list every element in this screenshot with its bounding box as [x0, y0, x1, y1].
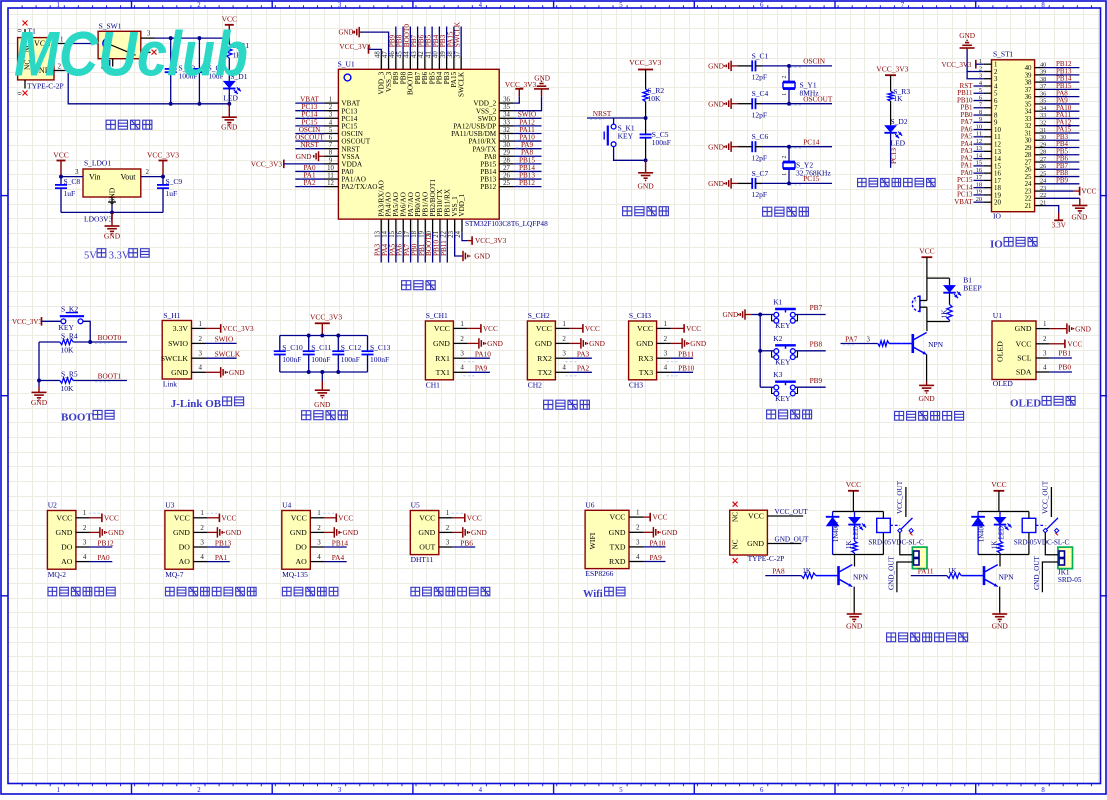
- ST1 left pin 3: [984, 78, 992, 80]
- CH2 pin 2 GND: [555, 342, 569, 344]
- svg-text:29: 29: [1025, 145, 1032, 152]
- svg-text:LED: LED: [223, 94, 238, 103]
- svg-text:7: 7: [329, 142, 333, 149]
- svg-text:23: 23: [1025, 188, 1032, 195]
- ST1 right pin 21: [1035, 205, 1044, 207]
- svg-text:AO: AO: [61, 557, 73, 566]
- svg-text:43: 43: [411, 51, 418, 58]
- net label VCC_OUT: [767, 515, 803, 517]
- ground GND filter: [321, 372, 323, 381]
- svg-text:CH3: CH3: [629, 380, 643, 389]
- svg-text:18: 18: [411, 230, 418, 237]
- svg-text:35: 35: [503, 104, 510, 111]
- ST1 left pin 8: [984, 114, 992, 116]
- ST1 right pin 35: [1035, 103, 1044, 105]
- svg-text:SWIO: SWIO: [168, 339, 188, 348]
- LDO pin 2 wire: [141, 176, 163, 178]
- net VCC_OUT vertical: [905, 487, 907, 517]
- key S_K1 reset button: [613, 118, 615, 124]
- svg-text:SCL: SCL: [1017, 354, 1032, 363]
- svg-text:S_K2: S_K2: [61, 304, 78, 313]
- label program run indicator: [858, 178, 867, 186]
- svg-text:2: 2: [197, 2, 201, 9]
- svg-text:GND: GND: [296, 152, 312, 161]
- wire C2 branch: [170, 38, 172, 69]
- U1 left pin 11 PA1/AO: [325, 178, 339, 180]
- svg-text:14: 14: [994, 156, 1001, 163]
- U1 bottom pin 24 VDD_1: [461, 219, 463, 233]
- svg-text:2: 2: [636, 524, 640, 532]
- U1 left pin 7 NRST: [325, 148, 339, 150]
- diode 1N4007: [832, 512, 834, 517]
- svg-text:PB11: PB11: [678, 350, 694, 359]
- ground GND bottom of U1 VSS_1: [455, 233, 463, 256]
- svg-text:VCC: VCC: [467, 513, 482, 522]
- label relay control circuit: [887, 633, 896, 642]
- svg-text:SRD-05: SRD-05: [1058, 576, 1082, 584]
- net label BOOT0: [73, 341, 127, 343]
- svg-text:MCUclub: MCUclub: [14, 20, 248, 90]
- svg-text:12pF: 12pF: [752, 73, 767, 82]
- svg-text:1: 1: [1043, 320, 1047, 328]
- svg-text:VCC: VCC: [653, 513, 668, 522]
- svg-text:6: 6: [329, 134, 333, 141]
- relay coil SRD-05VDC-SL-C: [877, 518, 891, 532]
- svg-text:1: 1: [446, 509, 450, 517]
- svg-text:14: 14: [382, 230, 389, 237]
- relay driver emitter to ground: [853, 587, 855, 613]
- net label PA8 and base resistor 1K: [765, 575, 801, 577]
- svg-text:1K: 1K: [941, 309, 949, 319]
- svg-text:PB0: PB0: [1059, 362, 1072, 371]
- svg-text:33: 33: [503, 119, 510, 126]
- svg-text:1K: 1K: [846, 541, 853, 549]
- svg-text:12pF: 12pF: [752, 153, 767, 162]
- svg-text:PA8: PA8: [772, 567, 785, 576]
- svg-text:S_C13: S_C13: [370, 343, 391, 352]
- svg-text:GND: GND: [173, 528, 190, 537]
- svg-text:100nF: 100nF: [282, 355, 301, 364]
- capacitor S_C3 10uF: [193, 68, 205, 70]
- svg-text:S_CH1: S_CH1: [426, 311, 448, 320]
- svg-text:VCC: VCC: [53, 150, 68, 159]
- svg-text:GND: GND: [487, 339, 503, 348]
- svg-text:8: 8: [1041, 787, 1045, 794]
- svg-text:37: 37: [1025, 87, 1032, 94]
- svg-text:20: 20: [994, 200, 1001, 207]
- transistor Q1 NPN alarm: [911, 334, 914, 353]
- ground GND LDO: [111, 212, 113, 226]
- svg-text:SDA: SDA: [1016, 368, 1032, 377]
- U1 bottom pin 23 VSS_1: [454, 219, 456, 233]
- capacitor S_C6 12pF: [738, 146, 752, 148]
- net label PA7 and base resistor 1K: [841, 343, 878, 345]
- svg-text:PB11: PB11: [440, 240, 448, 256]
- svg-text:12pF: 12pF: [752, 190, 767, 199]
- U6 pin 4 net PA9: [629, 561, 643, 563]
- svg-text:NRST: NRST: [593, 109, 612, 118]
- header S_CH3 serial: [629, 321, 657, 380]
- net label PB7: [795, 314, 826, 316]
- ST1 left pin 9: [984, 121, 992, 123]
- U1 top pin 39 PB3: [446, 57, 448, 70]
- svg-text:GND: GND: [609, 528, 626, 537]
- net label BOOT1: [73, 380, 127, 382]
- svg-text:1: 1: [329, 97, 332, 104]
- svg-text:37: 37: [454, 51, 461, 58]
- svg-text:GND: GND: [747, 539, 764, 548]
- net label NRST: [587, 117, 646, 119]
- svg-text:STM32F103C8T6_LQFP48: STM32F103C8T6_LQFP48: [465, 219, 548, 228]
- svg-text:36: 36: [1025, 94, 1032, 101]
- svg-text:Vin: Vin: [89, 173, 101, 182]
- svg-text:27: 27: [1025, 159, 1032, 166]
- wire S_C1 to net: [756, 65, 763, 67]
- svg-text:VCC: VCC: [174, 513, 190, 522]
- svg-text:MQ-2: MQ-2: [48, 570, 67, 579]
- svg-text:8: 8: [1041, 2, 1045, 9]
- H1 pin 4 GND: [192, 371, 206, 373]
- svg-text:3: 3: [200, 538, 204, 546]
- svg-text:SWCLK: SWCLK: [161, 354, 189, 363]
- ST1 right pin 31: [1035, 132, 1044, 134]
- U1 top pin 48 VDD_3: [380, 57, 382, 70]
- svg-text:GND: GND: [418, 528, 435, 537]
- resistor alarm 1K: [947, 305, 952, 321]
- crystal S_Y2 32.768KHz: [787, 145, 791, 149]
- svg-text:GND: GND: [846, 621, 863, 630]
- svg-text:NPN: NPN: [853, 572, 869, 581]
- svg-text:32.768KHz: 32.768KHz: [796, 168, 831, 177]
- svg-text:PA0: PA0: [97, 553, 110, 562]
- svg-text:GND: GND: [1015, 324, 1032, 333]
- svg-text:VCC: VCC: [637, 324, 653, 333]
- svg-text:GND: GND: [662, 528, 678, 537]
- svg-text:SRD-05VDC-SL-C: SRD-05VDC-SL-C: [868, 538, 924, 546]
- relay driver top rail: [833, 511, 884, 513]
- CH3 pin 4 net PB10: [657, 371, 671, 373]
- svg-text:GND_OUT: GND_OUT: [1033, 555, 1041, 590]
- U1 bottom pin 17 PA7/AO: [410, 219, 412, 233]
- U4 pin 1 VCC: [310, 517, 324, 519]
- svg-text:5: 5: [994, 91, 998, 98]
- capacitor S_C8 1uF: [60, 177, 62, 185]
- svg-text:GND: GND: [723, 310, 739, 319]
- OLED pin 3 net PB1: [1036, 357, 1050, 359]
- svg-text:11: 11: [994, 134, 1001, 141]
- U1 right pin 32 PA11/USB/DM: [499, 132, 513, 134]
- header U1 OLED: [992, 321, 1036, 380]
- svg-text:31: 31: [503, 134, 510, 141]
- header S_CH2 serial: [527, 321, 555, 380]
- svg-text:PA2: PA2: [577, 364, 590, 373]
- svg-text:VCC: VCC: [585, 324, 600, 333]
- svg-text:U2: U2: [48, 500, 57, 509]
- U1 top pin 43 PB7: [417, 57, 419, 70]
- LDO pin 3 wire: [61, 176, 83, 178]
- CH1 pin 3 net PA10: [453, 357, 467, 359]
- svg-text:3.3V: 3.3V: [1051, 220, 1066, 229]
- svg-text:100nF: 100nF: [652, 138, 671, 147]
- H1 pin 3 SWCLK: [192, 357, 206, 359]
- label U3 module: [166, 587, 175, 596]
- svg-text:1: 1: [782, 173, 788, 176]
- svg-text:NC: NC: [732, 512, 740, 522]
- resistor S_R3 1K: [888, 91, 893, 101]
- svg-text:38: 38: [1025, 80, 1032, 87]
- ST1 left pin 4: [984, 85, 992, 87]
- svg-text:PC13: PC13: [890, 148, 898, 164]
- svg-text:19: 19: [994, 192, 1001, 199]
- svg-text:4: 4: [460, 364, 464, 372]
- svg-text:S_C11: S_C11: [311, 343, 331, 352]
- wires to output connector: [900, 532, 913, 555]
- svg-text:VCC: VCC: [846, 480, 861, 489]
- svg-text:8: 8: [994, 112, 998, 119]
- relay driver emitter to ground: [999, 587, 1001, 613]
- svg-text:PA3: PA3: [577, 350, 590, 359]
- svg-text:2: 2: [200, 524, 204, 532]
- svg-text:PC14: PC14: [803, 138, 820, 147]
- svg-text:OSCIN: OSCIN: [803, 57, 826, 66]
- switch lever pin stub: [112, 59, 114, 67]
- ST1 left pin 18: [984, 187, 992, 189]
- svg-text:J-Link OB: J-Link OB: [171, 398, 222, 410]
- svg-text:100nF: 100nF: [311, 355, 330, 364]
- svg-text:4: 4: [329, 119, 333, 126]
- VCC power port LDO: [57, 160, 66, 162]
- svg-text:LED: LED: [891, 138, 906, 147]
- svg-text:1: 1: [994, 62, 998, 69]
- ST1 right pin 30: [1035, 139, 1044, 141]
- svg-text:32: 32: [1025, 123, 1032, 130]
- svg-text:24: 24: [455, 230, 462, 237]
- transistor NPN relay PA8: [837, 566, 840, 585]
- svg-text:NC: NC: [732, 539, 740, 549]
- net wire PC13 indicator: [890, 133, 892, 168]
- svg-text:VCC: VCC: [1067, 339, 1082, 348]
- U1 right pin 30 PA9/TX: [499, 148, 513, 150]
- alarm top tee: [927, 277, 950, 279]
- svg-text:K2: K2: [773, 334, 782, 343]
- svg-text:GND: GND: [433, 339, 450, 348]
- net VCC_OUT vertical: [1050, 487, 1052, 517]
- ST1 right pin 38: [1035, 81, 1044, 83]
- svg-text:PB9: PB9: [810, 376, 823, 385]
- svg-text:5: 5: [329, 127, 333, 134]
- U5 pin 1 VCC: [439, 517, 453, 519]
- U1 bottom pin 13 PA3/RX/AO: [380, 219, 382, 233]
- wire top rail: [156, 37, 230, 39]
- svg-text:SWCLK: SWCLK: [215, 349, 241, 358]
- svg-text:S_C8: S_C8: [64, 177, 81, 186]
- svg-text:GND: GND: [637, 182, 654, 191]
- svg-text:PB8: PB8: [810, 340, 823, 349]
- svg-text:OUT: OUT: [419, 543, 435, 552]
- OLED pin 2 VCC: [1036, 343, 1050, 345]
- label U2 module: [48, 587, 57, 596]
- svg-text:SWIO: SWIO: [215, 335, 234, 344]
- module U6 ESP8266: [585, 510, 629, 568]
- svg-text:NPN: NPN: [928, 340, 944, 349]
- U5 pin 3 net PB6: [439, 546, 453, 548]
- ST1 right pin 39: [1035, 74, 1044, 76]
- svg-text:11: 11: [327, 172, 334, 179]
- LED S_D2: [890, 101, 892, 125]
- svg-text:1: 1: [83, 509, 87, 517]
- svg-text:U1: U1: [993, 311, 1002, 320]
- svg-text:VCC_3V3: VCC_3V3: [12, 318, 42, 326]
- svg-text:GND: GND: [959, 31, 975, 40]
- U1 left pin 10 PA0: [325, 170, 339, 172]
- svg-text:4: 4: [317, 553, 321, 561]
- svg-text:GND: GND: [471, 528, 487, 537]
- svg-text:CH1: CH1: [426, 380, 440, 389]
- svg-text:18: 18: [994, 185, 1001, 192]
- svg-text:2: 2: [460, 335, 464, 343]
- label U5 module: [411, 587, 420, 596]
- svg-text:2: 2: [994, 69, 998, 76]
- svg-text:34: 34: [1025, 109, 1032, 116]
- resistor relay 1K: [999, 525, 1001, 541]
- svg-text:1: 1: [460, 320, 464, 328]
- capacitor S_C7 12pF: [738, 182, 752, 184]
- U4 pin 2 GND: [310, 531, 324, 533]
- svg-text:3.3V: 3.3V: [173, 324, 189, 333]
- svg-text:32: 32: [503, 127, 510, 134]
- ST1 right pin 22: [1035, 197, 1044, 199]
- svg-text:BOOT1: BOOT1: [98, 371, 122, 380]
- wire R2 to NRST node: [645, 102, 647, 118]
- relay output connector: [912, 547, 927, 569]
- ground GND power circuit: [228, 104, 230, 117]
- CH2 pin 4 net PA2: [555, 371, 569, 373]
- svg-text:S_C6: S_C6: [752, 132, 769, 141]
- svg-text:PB10: PB10: [678, 364, 695, 373]
- svg-text:U4: U4: [282, 500, 291, 509]
- svg-text:5: 5: [619, 2, 623, 9]
- svg-text:GND: GND: [535, 339, 552, 348]
- U1 bottom pin 18 PB0/AO: [417, 219, 419, 233]
- svg-text:1: 1: [562, 320, 566, 328]
- svg-text:1: 1: [199, 320, 203, 328]
- svg-text:10K: 10K: [648, 94, 662, 103]
- svg-text:GND: GND: [708, 142, 724, 151]
- svg-text:VCC: VCC: [338, 513, 353, 522]
- svg-text:8: 8: [329, 150, 333, 157]
- svg-text:VCC: VCC: [609, 513, 625, 522]
- alarm emitter to ground: [926, 355, 928, 382]
- svg-text:BOOT: BOOT: [61, 412, 93, 424]
- label key circuit: [767, 410, 776, 419]
- svg-text:16: 16: [396, 230, 403, 237]
- module U5 DHT11: [410, 511, 439, 555]
- key bus wire: [759, 315, 761, 388]
- svg-text:40: 40: [433, 51, 440, 58]
- svg-text:BEEP: BEEP: [963, 283, 981, 292]
- svg-text:U5: U5: [411, 500, 420, 509]
- relay switch contacts: [890, 524, 900, 526]
- svg-text:2: 2: [146, 168, 150, 176]
- ST1 right pin 34: [1035, 110, 1044, 112]
- U4 pin 3 net PB14: [310, 546, 324, 548]
- U1 top pin 38 PA15: [453, 57, 455, 70]
- ST1 left pin 14: [984, 158, 992, 160]
- svg-text:3: 3: [83, 538, 87, 546]
- svg-text:S_U1: S_U1: [338, 59, 355, 68]
- U1 top pin 45 PB8: [402, 57, 404, 70]
- svg-text:28: 28: [1025, 152, 1032, 159]
- wire S_C7 to net: [756, 182, 763, 184]
- U6 pin 1 VCC: [629, 516, 643, 518]
- svg-text:S_C12: S_C12: [341, 343, 362, 352]
- svg-text:SWCLK: SWCLK: [454, 21, 462, 47]
- ST1 left pin 5: [984, 92, 992, 94]
- relay driver bottom rail: [833, 554, 884, 556]
- svg-text:VCC: VCC: [104, 513, 119, 522]
- wire C3 branch: [198, 38, 200, 69]
- svg-text:GND: GND: [221, 123, 238, 132]
- connector TYPE-C-2P relay: [730, 510, 768, 555]
- svg-text:GND: GND: [690, 339, 706, 348]
- capacitor S_C13 100nF: [367, 336, 369, 352]
- VCC_3V3 power port LDO: [159, 160, 168, 162]
- svg-text:PB12: PB12: [480, 183, 496, 191]
- svg-text:1uF: 1uF: [64, 189, 76, 198]
- svg-text:VCC_3V3: VCC_3V3: [222, 324, 254, 333]
- H1 pin 2 SWIO: [192, 342, 206, 344]
- svg-text:3: 3: [994, 76, 998, 83]
- svg-text:OLED: OLED: [996, 341, 1005, 362]
- svg-text:44: 44: [404, 51, 411, 58]
- svg-text:9: 9: [329, 157, 333, 164]
- U1 right pin 33 PA12/USB/DP: [499, 125, 513, 127]
- svg-text:4: 4: [479, 787, 483, 794]
- U1 left pin 6 OSCOUT: [325, 140, 339, 142]
- LED branch alarm: [949, 278, 951, 285]
- svg-text:25: 25: [503, 180, 510, 187]
- svg-text:GND: GND: [343, 528, 359, 537]
- ruler row ticks: [1, 195, 8, 197]
- svg-text:TX3: TX3: [639, 368, 653, 377]
- svg-text:S_CH3: S_CH3: [629, 311, 651, 320]
- U2 pin 3 net PB12: [76, 546, 90, 548]
- svg-text:GND: GND: [992, 621, 1009, 630]
- svg-text:PB12: PB12: [97, 538, 114, 547]
- U1 left pin 5 OSCIN: [325, 132, 339, 134]
- ST1 left pin 16: [984, 172, 992, 174]
- svg-text:GND: GND: [589, 339, 605, 348]
- svg-text:4: 4: [200, 553, 204, 561]
- label U4 module: [282, 587, 291, 596]
- svg-text:LDO3V3: LDO3V3: [84, 215, 113, 224]
- svg-text:VCC: VCC: [991, 480, 1006, 489]
- U1 right pin 28 PB15: [499, 163, 513, 165]
- ST1 right pin 29: [1035, 146, 1044, 148]
- svg-text:3: 3: [664, 350, 668, 358]
- svg-text:GND: GND: [339, 29, 354, 37]
- svg-text:ESP8266: ESP8266: [585, 569, 613, 578]
- svg-text:4: 4: [994, 83, 998, 90]
- CH1 pin 2 GND: [453, 342, 467, 344]
- svg-text:PB6: PB6: [460, 538, 473, 547]
- svg-text:12: 12: [327, 180, 334, 187]
- ST1 left pin 6: [984, 100, 992, 102]
- svg-text:GND: GND: [290, 528, 307, 537]
- ground GND BOOT: [38, 381, 40, 387]
- label power circuit: [106, 120, 115, 129]
- U1 right pin 25 PB12: [499, 186, 513, 188]
